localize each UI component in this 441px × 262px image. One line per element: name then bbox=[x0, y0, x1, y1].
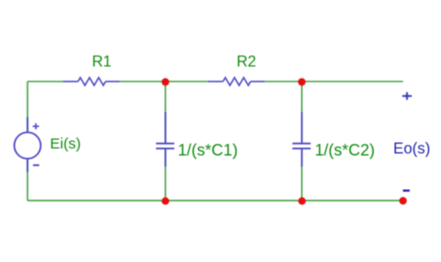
wire vertical branch node B (C2 branch) bbox=[301, 82, 303, 201]
svg-text:R1: R1 bbox=[92, 53, 112, 70]
output polarity minus bbox=[403, 190, 410, 192]
wire top rail middle segment bbox=[120, 81, 209, 83]
node B junction dot bottom bbox=[298, 197, 306, 205]
voltage source V1 bbox=[14, 117, 40, 172]
node A junction dot top bbox=[162, 78, 170, 86]
node B junction dot top bbox=[298, 78, 306, 86]
resistor R1 bbox=[63, 78, 120, 86]
svg-text:Eo(s): Eo(s) bbox=[393, 141, 430, 158]
label Ei(s) bbox=[50, 135, 81, 152]
label Eo(s) bbox=[393, 141, 430, 158]
label 1/(s*C2) bbox=[315, 141, 375, 159]
output terminal dot bottom right bbox=[399, 197, 407, 205]
polarity plus of source bbox=[33, 123, 39, 129]
capacitor C2 bbox=[292, 112, 310, 167]
output polarity plus bbox=[402, 92, 411, 100]
label R2 bbox=[237, 53, 257, 70]
wire top rail left segment bbox=[28, 81, 64, 83]
label R1 bbox=[92, 53, 112, 70]
label 1/(s*C1) bbox=[178, 141, 238, 159]
capacitor C1 bbox=[156, 112, 174, 167]
svg-text:R2: R2 bbox=[237, 53, 257, 70]
wire top rail right segment bbox=[265, 81, 404, 83]
node A junction dot bottom bbox=[162, 197, 170, 205]
polarity minus of source bbox=[33, 164, 39, 166]
wire vertical branch node A (C1 branch) bbox=[164, 82, 166, 201]
wire left rail bbox=[27, 82, 29, 201]
svg-text:1/(s*C2): 1/(s*C2) bbox=[315, 141, 375, 159]
svg-text:Ei(s): Ei(s) bbox=[50, 135, 81, 152]
svg-text:1/(s*C1): 1/(s*C1) bbox=[178, 141, 238, 159]
resistor R2 bbox=[208, 78, 265, 86]
wire bottom rail bbox=[28, 200, 404, 202]
